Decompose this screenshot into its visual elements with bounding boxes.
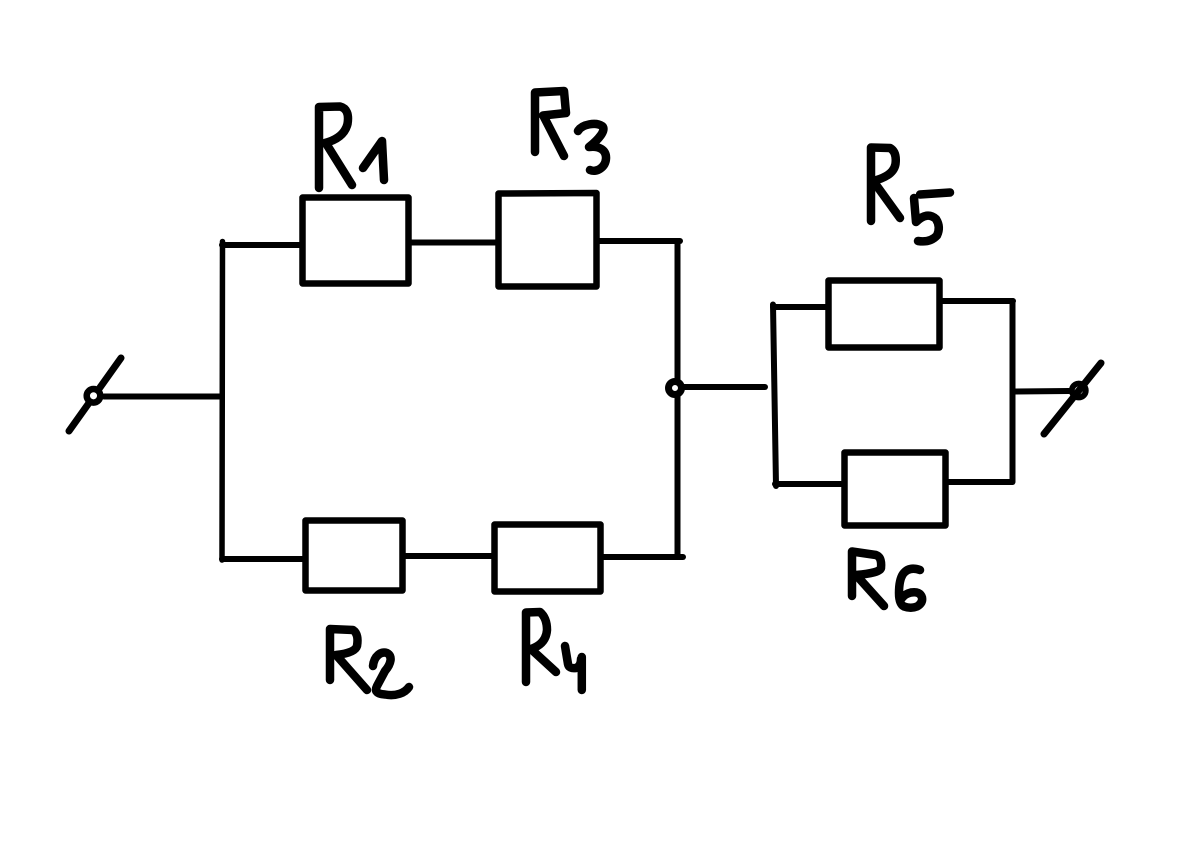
label R4 <box>526 612 582 690</box>
wire R2 to R4 <box>403 553 494 559</box>
label R2 <box>330 629 409 695</box>
wire node to right block <box>683 384 765 390</box>
resistor R6 <box>845 453 946 526</box>
label R5 <box>871 148 950 242</box>
left terminal slash <box>69 358 121 431</box>
wire left vertical bus <box>219 242 225 561</box>
wire top to R5 <box>773 304 828 310</box>
wire bottom-left horizontal to R2 <box>222 556 305 562</box>
wire R6 to right vertical <box>946 479 1012 485</box>
resistor R1 <box>303 198 409 284</box>
resistor R2 <box>306 521 403 591</box>
middle node junction <box>669 382 682 395</box>
wire right vertical to right terminal <box>1013 388 1069 395</box>
label R6 <box>852 552 922 608</box>
label R3 <box>535 91 606 171</box>
label R1 <box>319 107 384 189</box>
resistor R5 <box>829 281 940 348</box>
resistor R3 <box>499 193 597 287</box>
wire from left terminal to left vertical <box>104 394 222 400</box>
wire R4 to middle vertical <box>601 554 683 560</box>
wire R3 to middle vertical <box>597 238 680 244</box>
wire right block right vertical <box>1010 301 1016 482</box>
right terminal circle <box>1072 384 1086 398</box>
wire middle vertical <box>675 241 681 557</box>
wire top-left horizontal to R1 <box>222 242 302 248</box>
wire R5 to right vertical <box>940 298 1013 304</box>
resistor R4 <box>495 525 601 592</box>
wire right block left vertical <box>773 305 776 487</box>
wire R1 to R3 <box>409 240 498 246</box>
wire bottom to R6 <box>775 481 844 487</box>
right terminal slash <box>1044 363 1101 434</box>
left terminal circle <box>87 389 101 403</box>
